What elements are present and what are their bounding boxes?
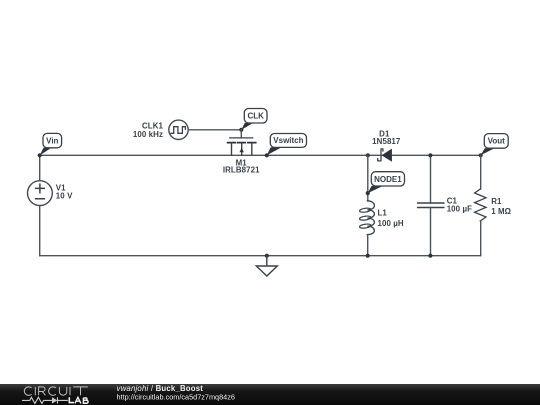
wire bottom rail [40,255,481,257]
wire V1 bottom lead [39,206,41,256]
capacitor C1 [418,196,472,213]
resistor R1 [475,189,511,221]
svg-text:10 V: 10 V [56,192,73,201]
junction dot Vin [38,153,42,157]
junction dot C1 bottom [428,254,432,258]
junction dot CLK gate [239,128,243,132]
junction dot L1 bottom [366,254,370,258]
voltage source V1 [28,181,74,206]
wire R1 top lead [480,155,482,189]
diode D1 schottky [372,130,401,162]
svg-text:1 MΩ: 1 MΩ [491,207,511,216]
wire C1 bottom lead [430,208,432,256]
inductor L1 [359,201,404,235]
svg-text:100 µH: 100 µH [378,219,404,228]
svg-text:R1: R1 [491,197,502,206]
svg-text:100 µF: 100 µF [447,204,472,213]
svg-text:IRLB8721: IRLB8721 [223,165,260,174]
svg-text:1N5817: 1N5817 [372,137,401,146]
wire NODE1 branch [367,155,369,201]
ground symbol [256,256,277,276]
footer bar [0,384,540,405]
svg-text:http://circuitlab.com/ca5d7z7m: http://circuitlab.com/ca5d7z7mq84z6 [117,392,235,401]
transistor M1 NMOS [223,130,260,175]
svg-text:Vout: Vout [488,137,506,146]
wire V1 top lead [39,155,41,180]
footer logo circuit glyph wire+resistor+diode [22,397,68,403]
junction dot Vswitch [265,153,269,157]
node Vin label [40,133,62,155]
svg-text:Vswitch: Vswitch [273,136,303,145]
svg-text:CLK: CLK [247,112,264,121]
junction dot diode left [366,153,370,157]
junction dot NODE1 [366,191,370,195]
node Vswitch label [267,134,307,156]
footer logo CIRCUIT [24,387,87,396]
wire top rail Vin to Vout [40,154,481,156]
node Vout label [481,134,508,156]
svg-text:100 kHz: 100 kHz [133,130,163,139]
clock source CLK1 [133,120,188,139]
junction dot ground [265,254,269,258]
footer logo LAB [69,397,88,403]
wire C1 top lead [430,155,432,203]
wire R1 bottom lead [480,221,482,256]
svg-text:L1: L1 [378,209,388,218]
svg-text:NODE1: NODE1 [374,175,402,184]
svg-text:Vin: Vin [46,136,58,145]
node CLK label [241,109,267,130]
wire CLK1 to gate [188,129,241,131]
node NODE1 label [368,172,405,193]
wire L1 bottom lead [366,235,368,256]
junction dot C1 top [428,153,432,157]
junction dot Vout [479,153,483,157]
